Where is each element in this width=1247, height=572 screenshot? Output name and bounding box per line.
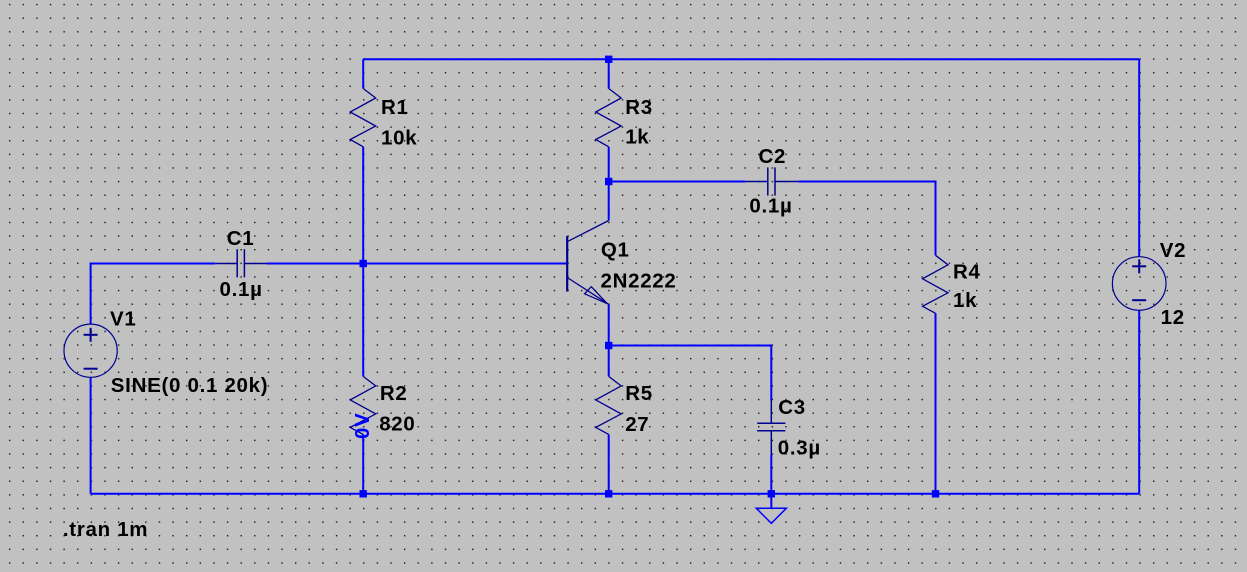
svg-text:1k: 1k	[625, 126, 649, 149]
svg-text:.tran 1m: .tran 1m	[63, 518, 148, 541]
resistor R1	[350, 89, 376, 147]
wire V1 top to C1	[91, 264, 216, 325]
resistor R3	[596, 89, 622, 147]
junction top rail R3	[605, 56, 612, 63]
svg-text:0.1µ: 0.1µ	[220, 278, 263, 301]
wire R4 bottom to rail	[935, 313, 937, 494]
svg-text:C3: C3	[778, 396, 806, 419]
svg-text:12: 12	[1161, 306, 1185, 329]
svg-text:SINE(0 0.1 20k): SINE(0 0.1 20k)	[111, 374, 268, 397]
svg-text:R5: R5	[625, 382, 653, 405]
svg-text:V1: V1	[110, 307, 136, 330]
svg-text:1k: 1k	[953, 289, 977, 312]
voltage source V1	[64, 324, 117, 377]
junction rail R4	[932, 490, 939, 497]
wire R1 top lead from top rail	[362, 59, 364, 88]
wire collector node to C2	[609, 181, 745, 183]
junction base node	[360, 260, 367, 267]
junction emitter node	[605, 342, 612, 349]
wire R2 bottom to rail	[362, 434, 364, 493]
svg-text:0V: 0V	[351, 413, 374, 439]
wire R3 bottom to collector node	[608, 147, 610, 182]
svg-text:820: 820	[379, 413, 415, 436]
wire V2 top from top rail	[1138, 59, 1140, 257]
voltage source V2	[1112, 257, 1166, 311]
wire emitter node to R5 top	[608, 346, 610, 377]
svg-text:C1: C1	[227, 227, 255, 250]
resistor R5	[596, 376, 622, 434]
junction rail R5	[605, 490, 612, 497]
wire base node to Q1 base	[267, 263, 568, 265]
resistor R2	[350, 376, 376, 434]
svg-text:R1: R1	[381, 96, 409, 119]
svg-text:0.1µ: 0.1µ	[749, 195, 792, 218]
wire R5 bottom to rail	[608, 434, 610, 493]
svg-text:C2: C2	[759, 145, 787, 168]
wire V2 bottom to rail	[1138, 310, 1140, 494]
wire R1 bottom to base node	[362, 147, 364, 264]
svg-text:R3: R3	[625, 96, 653, 119]
wire top rail	[363, 58, 1139, 60]
wire V1 bottom to ground rail	[90, 377, 92, 494]
capacitor C1	[215, 249, 266, 277]
junction rail C3/gnd	[768, 490, 775, 497]
junction collector node	[605, 178, 612, 185]
wire bottom rail	[91, 493, 1140, 495]
wire emitter node to C3 column	[609, 346, 772, 401]
svg-text:V2: V2	[1160, 239, 1186, 262]
svg-text:Q1: Q1	[601, 239, 630, 262]
wire base node to R2 top	[362, 264, 364, 377]
wire R3 top lead	[608, 59, 610, 88]
capacitor C3	[757, 400, 785, 454]
svg-text:0.3µ: 0.3µ	[778, 437, 821, 460]
resistor R4	[923, 255, 949, 313]
svg-text:2N2222: 2N2222	[601, 270, 677, 293]
wire collector node down to Q1 collector	[608, 182, 610, 221]
svg-text:R4: R4	[953, 260, 981, 283]
svg-text:10k: 10k	[381, 126, 417, 149]
transistor Q1	[566, 236, 568, 292]
svg-text:R2: R2	[380, 382, 408, 405]
junction rail R2	[360, 490, 367, 497]
wire Q1 emitter to emitter node	[608, 304, 610, 345]
wire C2 to R4 top	[798, 182, 935, 256]
ground	[756, 498, 786, 524]
wire C3 bottom to rail	[770, 454, 772, 494]
capacitor C2	[745, 167, 798, 195]
svg-text:27: 27	[625, 413, 649, 436]
